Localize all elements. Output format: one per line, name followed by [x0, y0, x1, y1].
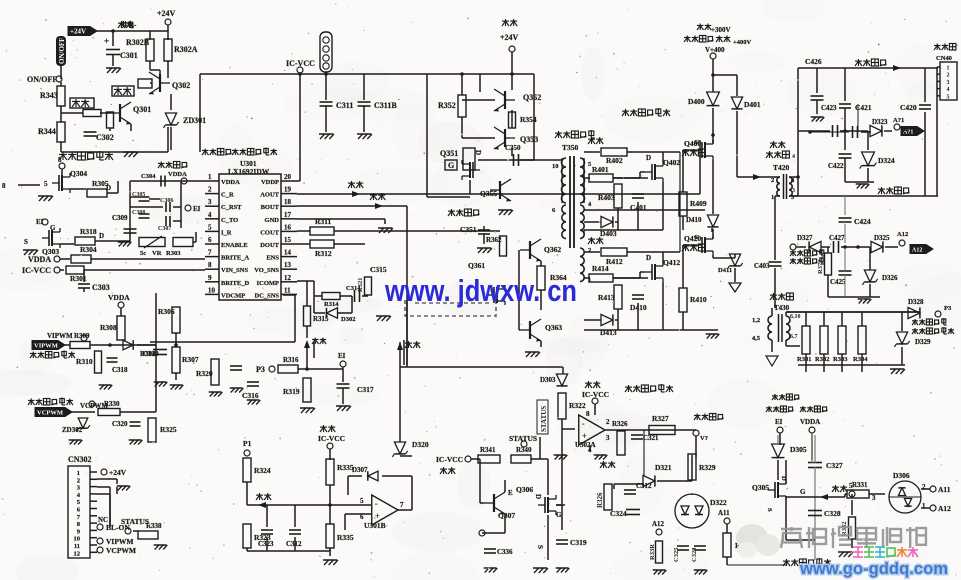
svg-text:VIPWM: VIPWM — [47, 332, 73, 340]
svg-text:VIPWM: VIPWM — [34, 343, 58, 350]
svg-text:R325: R325 — [160, 425, 177, 434]
svg-text:2: 2 — [588, 247, 591, 254]
svg-text:R306: R306 — [158, 307, 175, 316]
svg-text:C420: C420 — [900, 103, 917, 112]
svg-text:C317: C317 — [357, 385, 374, 394]
svg-text:C316: C316 — [242, 391, 259, 400]
svg-text:C_TO: C_TO — [221, 217, 238, 224]
svg-text:C306: C306 — [160, 198, 173, 204]
svg-text:C350: C350 — [505, 144, 521, 152]
svg-text:+24V: +24V — [109, 468, 127, 477]
svg-text:CN302: CN302 — [68, 455, 92, 464]
svg-text:C336: C336 — [497, 548, 513, 556]
svg-text:www.go-gddq.com: www.go-gddq.com — [799, 559, 948, 578]
svg-text:3: 3 — [606, 434, 610, 442]
svg-text:D410: D410 — [686, 216, 702, 224]
svg-text:5: 5 — [44, 180, 48, 188]
svg-text:17: 17 — [284, 211, 292, 219]
svg-text:-: - — [375, 498, 378, 508]
svg-text:Q301: Q301 — [133, 105, 151, 114]
svg-text:C325: C325 — [673, 547, 680, 562]
svg-text:COUT: COUT — [260, 229, 279, 236]
svg-text:R338: R338 — [146, 522, 162, 530]
svg-text:R319: R319 — [283, 387, 300, 396]
svg-text:16: 16 — [284, 223, 292, 231]
svg-text:+: + — [375, 511, 380, 521]
svg-text:R324: R324 — [254, 466, 271, 475]
svg-text:R312: R312 — [315, 249, 332, 258]
svg-text:R320: R320 — [196, 369, 213, 378]
svg-text:R308: R308 — [100, 323, 117, 332]
svg-text:D: D — [646, 154, 651, 162]
svg-text:R321: R321 — [357, 278, 364, 292]
svg-text:VDDA: VDDA — [108, 293, 130, 302]
svg-text:C312: C312 — [286, 540, 302, 548]
svg-text:R343: R343 — [40, 91, 58, 100]
svg-text:R382: R382 — [815, 356, 829, 363]
svg-text:R354: R354 — [520, 115, 537, 124]
svg-text:BOUT: BOUT — [261, 204, 280, 211]
svg-text:VDDA: VDDA — [221, 179, 240, 186]
svg-text:EI: EI — [775, 418, 783, 426]
svg-text:D401: D401 — [744, 100, 761, 109]
svg-text:Q302: Q302 — [172, 81, 190, 90]
svg-text:R362: R362 — [486, 236, 502, 244]
svg-text:A12: A12 — [897, 231, 908, 238]
svg-text:18: 18 — [284, 198, 292, 206]
svg-text:VDDA: VDDA — [28, 255, 51, 264]
svg-text:V?: V? — [700, 435, 708, 442]
svg-text:+24V: +24V — [70, 28, 86, 36]
svg-text:D: D — [474, 150, 482, 155]
svg-text:D400: D400 — [688, 97, 705, 106]
svg-text:ZD302: ZD302 — [62, 426, 83, 434]
svg-text:C422: C422 — [828, 162, 844, 170]
svg-text:5: 5 — [208, 223, 212, 231]
svg-text:-: - — [582, 418, 585, 428]
svg-text:ON/OFF: ON/OFF — [58, 38, 66, 64]
svg-text:1,2: 1,2 — [752, 317, 760, 324]
svg-text:6: 6 — [208, 236, 212, 244]
svg-text:A11: A11 — [938, 485, 951, 494]
svg-text:Q402: Q402 — [663, 158, 680, 167]
svg-text:C311B: C311B — [374, 101, 397, 110]
svg-text:+300V: +300V — [711, 26, 731, 34]
svg-text:C311: C311 — [336, 101, 353, 110]
svg-text:D411: D411 — [718, 267, 732, 274]
svg-text:T350: T350 — [562, 143, 579, 152]
svg-text:T420: T420 — [773, 163, 790, 172]
svg-text:R314: R314 — [324, 301, 339, 308]
svg-text:S: S — [24, 238, 28, 246]
svg-text:VCPWM: VCPWM — [106, 546, 136, 555]
svg-text:C302: C302 — [96, 133, 114, 142]
svg-text:C426: C426 — [805, 57, 822, 66]
svg-text:C318: C318 — [112, 366, 128, 374]
svg-text:R311: R311 — [315, 217, 332, 226]
svg-text:G: G — [556, 511, 562, 519]
svg-text:A12: A12 — [938, 504, 951, 513]
svg-text:ON/OFF: ON/OFF — [27, 75, 57, 84]
svg-text:P3: P3 — [944, 305, 952, 312]
svg-text:3: 3 — [947, 80, 950, 86]
svg-text:VIPWM: VIPWM — [106, 537, 134, 546]
svg-text:R414: R414 — [592, 264, 609, 273]
svg-text:R304: R304 — [80, 245, 97, 254]
svg-text:A11: A11 — [718, 509, 730, 517]
svg-text:5c: 5c — [140, 250, 146, 257]
svg-text:1: 1 — [947, 66, 950, 72]
svg-text:11: 11 — [284, 286, 291, 294]
svg-text:G: G — [694, 139, 699, 146]
svg-text:C423: C423 — [821, 104, 837, 112]
svg-text:VO_SNS: VO_SNS — [254, 267, 279, 274]
svg-text:R326: R326 — [612, 420, 628, 428]
svg-text:6,7: 6,7 — [790, 334, 798, 340]
svg-text:CN40: CN40 — [936, 55, 952, 62]
svg-text:8: 8 — [58, 156, 62, 164]
svg-text:P1: P1 — [243, 439, 252, 448]
svg-text:3: 3 — [872, 494, 876, 502]
svg-text:D329: D329 — [915, 338, 931, 346]
svg-text:C403: C403 — [754, 262, 770, 270]
svg-text:LX1692IDW: LX1692IDW — [228, 167, 270, 176]
svg-text:VDDP: VDDP — [261, 179, 279, 186]
svg-text:13: 13 — [284, 261, 292, 269]
svg-text:8: 8 — [2, 182, 6, 190]
svg-text:STATUS: STATUS — [540, 406, 548, 432]
svg-text:2: 2 — [922, 483, 926, 491]
svg-text:5: 5 — [360, 497, 364, 505]
svg-text:7: 7 — [208, 249, 212, 257]
svg-text:R309: R309 — [74, 332, 90, 340]
svg-text:D306: D306 — [893, 471, 910, 480]
svg-text:C323: C323 — [258, 540, 274, 548]
svg-text:D325: D325 — [874, 234, 890, 242]
svg-text:GND: GND — [265, 217, 280, 224]
svg-text:IC-VCC: IC-VCC — [436, 455, 463, 464]
svg-text:BRITE_D: BRITE_D — [221, 280, 249, 287]
svg-text:R341: R341 — [480, 446, 496, 454]
svg-text:8: 8 — [586, 410, 590, 418]
svg-text:D324: D324 — [878, 156, 895, 165]
svg-text:C321: C321 — [643, 434, 659, 442]
svg-text:D: D — [534, 494, 542, 499]
svg-text:C324: C324 — [610, 509, 627, 518]
svg-text:C304: C304 — [141, 173, 156, 180]
svg-text:P3: P3 — [256, 365, 265, 374]
svg-text:R330: R330 — [104, 400, 120, 408]
svg-text:11: 11 — [74, 543, 80, 550]
svg-text:R401: R401 — [592, 165, 609, 174]
svg-text:1: 1 — [771, 194, 774, 201]
svg-text:20: 20 — [284, 173, 292, 181]
svg-text:8: 8 — [208, 261, 212, 269]
svg-text:IC-VCC: IC-VCC — [22, 266, 51, 275]
svg-text:R332: R332 — [841, 522, 848, 536]
svg-text:C328: C328 — [691, 547, 698, 562]
svg-text:1: 1 — [922, 502, 926, 510]
svg-text:I_R: I_R — [221, 229, 232, 236]
svg-text:Q355: Q355 — [480, 189, 497, 198]
svg-text:7: 7 — [400, 501, 404, 509]
svg-text:ZD301: ZD301 — [183, 116, 206, 125]
svg-text:2: 2 — [77, 477, 80, 484]
svg-text:2: 2 — [606, 418, 610, 426]
svg-text:V+400: V+400 — [705, 46, 725, 54]
svg-text:+400V: +400V — [733, 39, 751, 46]
svg-text:R326: R326 — [596, 492, 604, 508]
svg-text:D302: D302 — [341, 316, 355, 323]
svg-text:www. jdwxw. cn: www. jdwxw. cn — [384, 273, 577, 308]
svg-text:ENABLE: ENABLE — [221, 242, 248, 249]
svg-text:C307: C307 — [158, 226, 171, 232]
svg-text:3: 3 — [792, 188, 795, 194]
svg-text:S: S — [536, 545, 544, 549]
svg-text:U302A: U302A — [575, 441, 596, 449]
svg-text:EI: EI — [338, 352, 346, 360]
svg-text:2: 2 — [947, 73, 950, 79]
svg-text:U301B: U301B — [364, 521, 386, 530]
svg-text:C308: C308 — [132, 210, 145, 216]
svg-text:D323: D323 — [872, 118, 888, 126]
svg-text:R318: R318 — [80, 227, 97, 236]
svg-text:+: + — [104, 36, 109, 46]
svg-text:R402: R402 — [606, 156, 623, 165]
svg-text:EI: EI — [193, 205, 201, 213]
svg-text:A?1: A?1 — [893, 117, 904, 124]
svg-text:9: 9 — [208, 274, 212, 282]
svg-text:19: 19 — [284, 186, 292, 194]
svg-text:10: 10 — [208, 286, 216, 294]
svg-text:+24V: +24V — [157, 9, 176, 18]
svg-text:+: + — [582, 431, 587, 441]
svg-text:D322: D322 — [710, 498, 727, 507]
svg-text:R403: R403 — [598, 193, 615, 202]
svg-text:VR: VR — [152, 250, 162, 257]
svg-text:C424: C424 — [854, 217, 871, 226]
svg-text:D: D — [106, 184, 111, 192]
svg-text:R329: R329 — [699, 463, 716, 472]
svg-text:R316: R316 — [283, 356, 299, 364]
svg-text:AOUT: AOUT — [260, 192, 279, 199]
svg-text:R307: R307 — [182, 355, 199, 364]
svg-text:1: 1 — [77, 470, 80, 477]
svg-text:R384: R384 — [853, 356, 868, 363]
svg-text:10: 10 — [552, 163, 559, 170]
svg-text:Q304: Q304 — [70, 169, 87, 178]
svg-text:ENS: ENS — [266, 255, 279, 262]
svg-text:D307: D307 — [352, 466, 368, 474]
svg-text:2: 2 — [208, 186, 212, 194]
svg-text:5: 5 — [947, 94, 950, 100]
svg-text:12: 12 — [284, 274, 292, 282]
svg-text:DOUT: DOUT — [260, 242, 279, 249]
svg-text:C351: C351 — [460, 225, 477, 234]
svg-text:4,5: 4,5 — [752, 335, 761, 342]
svg-text:C_R: C_R — [221, 192, 234, 199]
svg-text:BRITE_A: BRITE_A — [221, 255, 249, 262]
svg-text:4: 4 — [947, 87, 950, 93]
svg-text:10: 10 — [74, 536, 81, 543]
svg-text:+24V: +24V — [500, 33, 519, 42]
svg-text:S: S — [766, 508, 773, 512]
svg-text:R413: R413 — [598, 293, 615, 302]
svg-text:C425: C425 — [830, 278, 846, 286]
svg-text:R331: R331 — [852, 481, 868, 489]
svg-text:DC_SNS: DC_SNS — [254, 292, 279, 299]
svg-text:Q412: Q412 — [663, 258, 680, 267]
svg-text:Q353: Q353 — [520, 135, 538, 144]
svg-text:3: 3 — [208, 198, 212, 206]
svg-text:ICOMP: ICOMP — [257, 280, 279, 287]
svg-text:14: 14 — [284, 249, 292, 257]
svg-text:6,10: 6,10 — [790, 314, 801, 320]
svg-text:C319: C319 — [570, 538, 587, 547]
svg-text:D328: D328 — [908, 298, 924, 306]
svg-text:Q305: Q305 — [752, 483, 769, 492]
svg-text:R310: R310 — [76, 357, 93, 366]
svg-text:C320: C320 — [112, 420, 128, 428]
svg-text:R322: R322 — [569, 401, 586, 410]
svg-text:1: 1 — [208, 173, 212, 181]
svg-text:R410: R410 — [690, 295, 707, 304]
svg-text:C328: C328 — [824, 509, 841, 518]
svg-text:D321: D321 — [655, 463, 672, 472]
svg-text:Q306: Q306 — [516, 485, 533, 494]
svg-text:VDDA: VDDA — [168, 171, 187, 178]
svg-text:R352: R352 — [438, 101, 456, 110]
svg-text:R373: R373 — [817, 259, 824, 274]
svg-text:Q361: Q361 — [468, 261, 485, 270]
svg-text:VIN_SNS: VIN_SNS — [221, 267, 248, 274]
svg-text:R302A: R302A — [174, 45, 198, 54]
svg-text:R409: R409 — [690, 199, 707, 208]
svg-text:R344: R344 — [38, 127, 56, 136]
svg-text:G: G — [800, 488, 806, 496]
svg-text:4: 4 — [208, 211, 212, 219]
svg-text:G: G — [694, 234, 699, 241]
svg-text:R383: R383 — [833, 356, 848, 363]
svg-text:15: 15 — [284, 236, 292, 244]
svg-text:A12: A12 — [652, 520, 665, 528]
svg-text:D303: D303 — [540, 376, 556, 384]
svg-text:R33R: R33R — [649, 544, 656, 560]
svg-text:12: 12 — [74, 550, 81, 557]
svg-text:Q352: Q352 — [523, 93, 541, 102]
svg-text:R381: R381 — [797, 356, 811, 363]
svg-text:R302B: R302B — [126, 38, 150, 47]
svg-text:Q351: Q351 — [440, 149, 458, 158]
svg-text:D: D — [99, 232, 104, 240]
svg-text:A12: A12 — [912, 248, 922, 254]
svg-text:D326: D326 — [882, 274, 898, 282]
svg-text:Q362: Q362 — [544, 245, 561, 254]
svg-text:G: G — [448, 161, 454, 170]
svg-text:C327: C327 — [826, 461, 843, 470]
svg-text:D305: D305 — [790, 445, 807, 454]
svg-text:D: D — [646, 254, 651, 262]
svg-text:D327: D327 — [797, 234, 813, 242]
svg-text:VCPWM: VCPWM — [37, 410, 63, 417]
svg-text:VDCMP: VDCMP — [221, 292, 245, 299]
svg-text:4: 4 — [792, 154, 795, 160]
svg-text:IC-VCC: IC-VCC — [318, 434, 345, 443]
svg-text:2: 2 — [771, 177, 774, 184]
svg-text:D320: D320 — [412, 440, 429, 449]
svg-text:VDDA: VDDA — [800, 418, 820, 426]
svg-text:C303: C303 — [92, 283, 110, 292]
svg-text:C427: C427 — [829, 234, 845, 242]
svg-text:T430: T430 — [774, 304, 790, 312]
svg-text:Q363: Q363 — [545, 323, 562, 332]
svg-text:C309: C309 — [112, 214, 128, 222]
svg-text:E: E — [508, 489, 513, 497]
svg-text:STATUS: STATUS — [121, 517, 149, 526]
svg-text:R327: R327 — [652, 414, 669, 423]
svg-text:R335: R335 — [337, 533, 354, 542]
svg-text:EI: EI — [36, 218, 44, 226]
svg-text:Q307: Q307 — [498, 511, 515, 520]
svg-text:R303: R303 — [166, 250, 181, 257]
